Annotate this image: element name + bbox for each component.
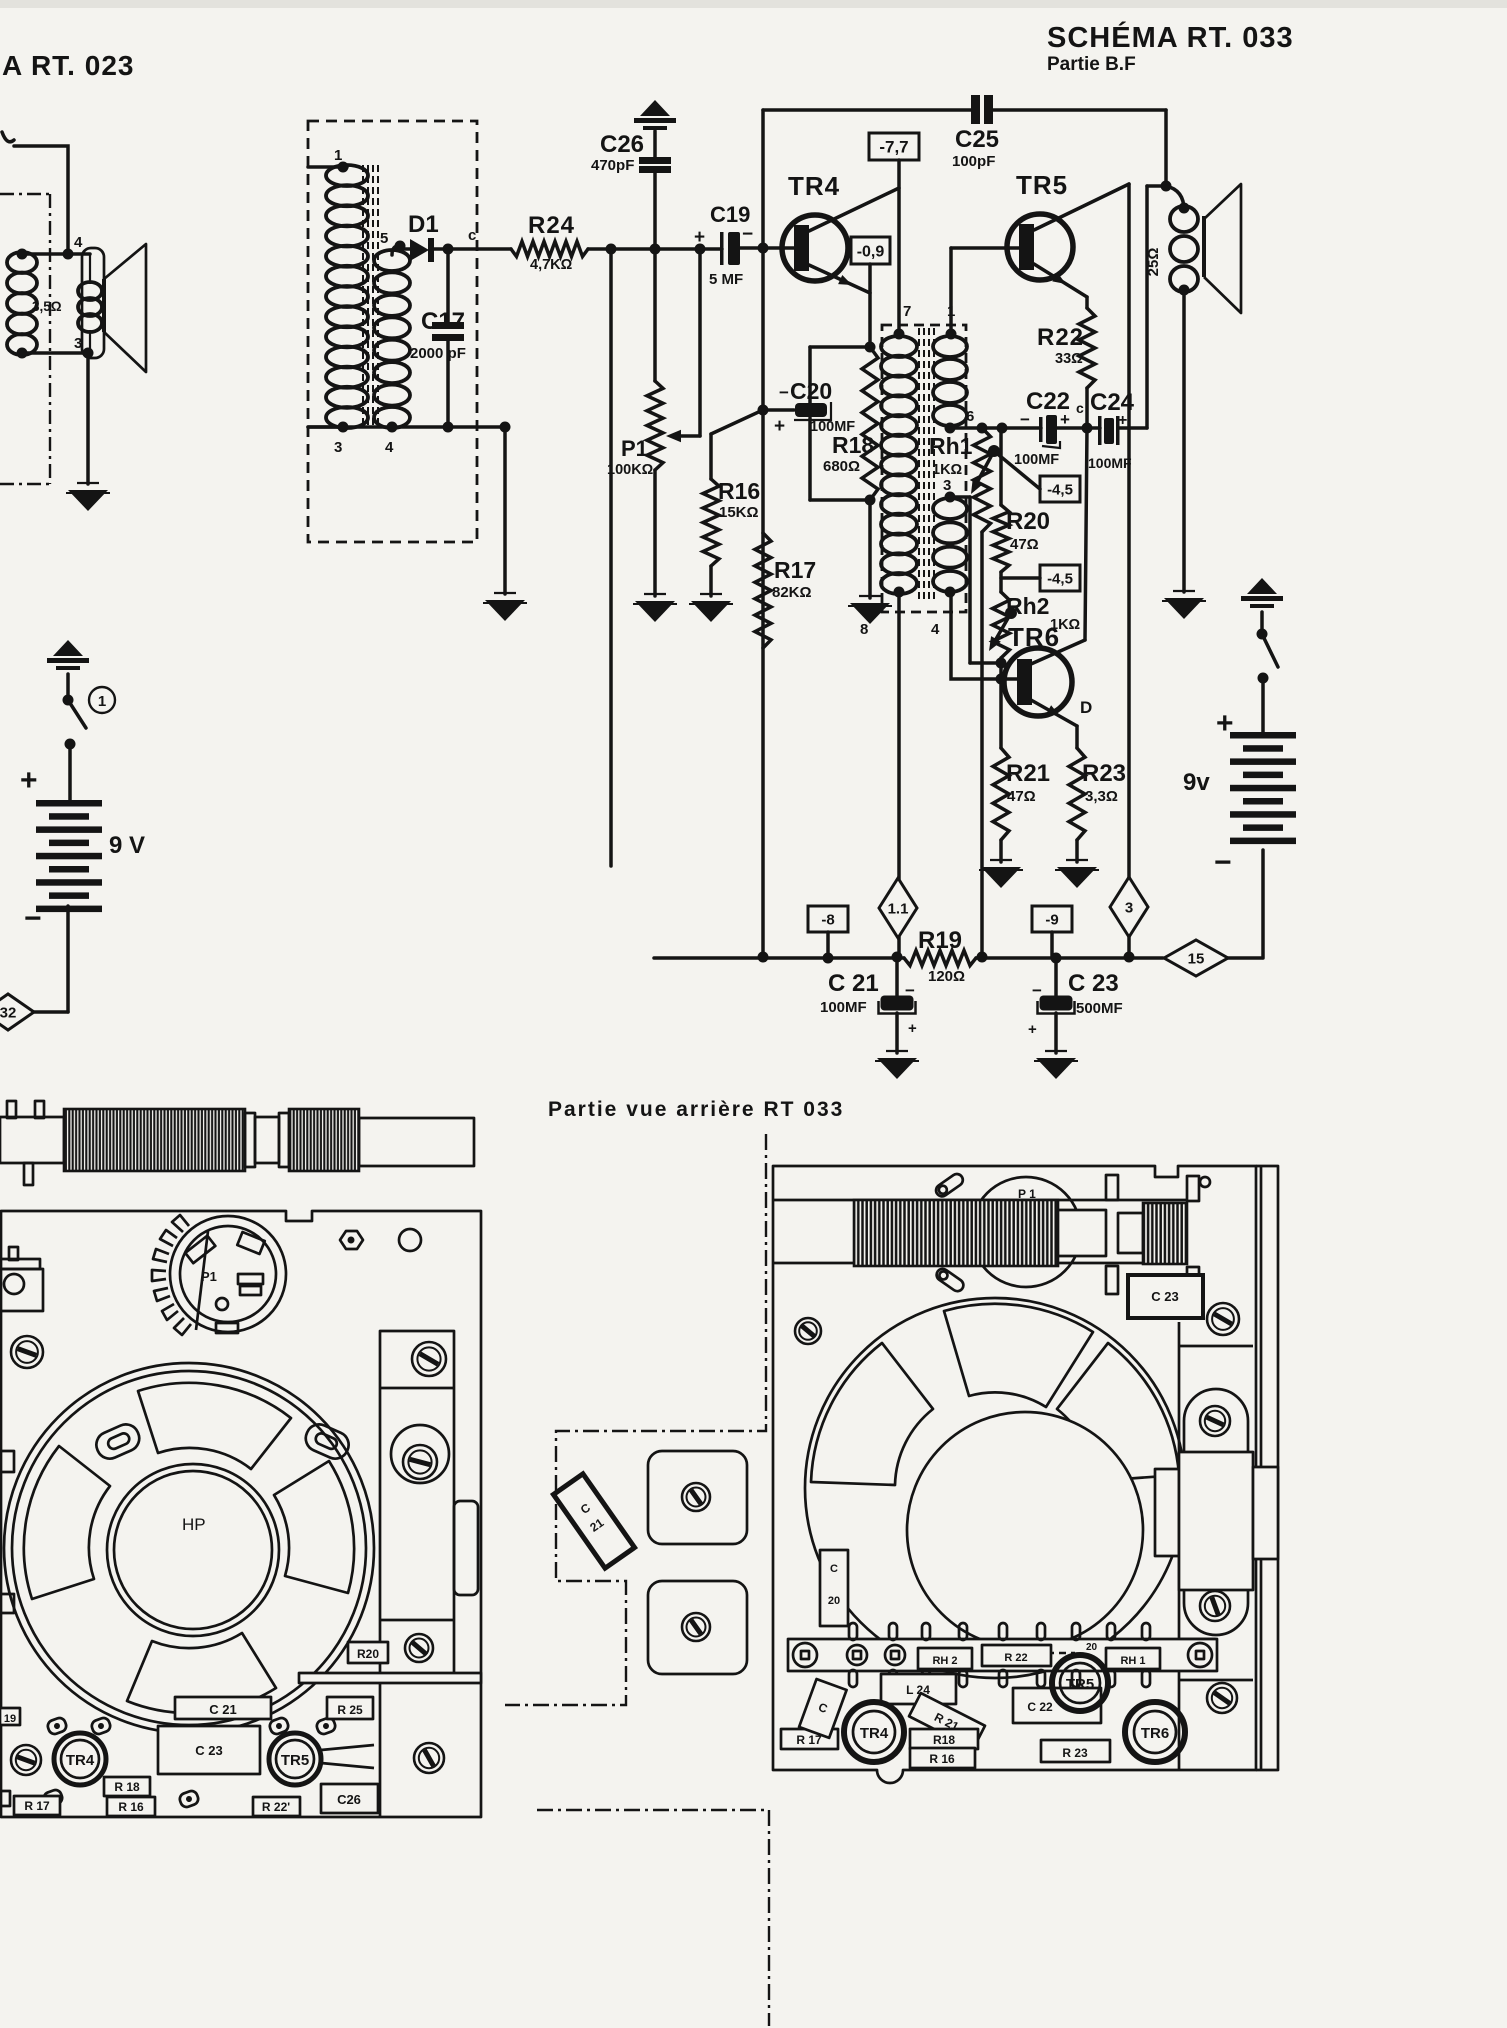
right PCB R22 box — [982, 1645, 1051, 1666]
svg-text:P1: P1 — [621, 436, 648, 461]
wire C19 to TR4 base — [740, 246, 795, 250]
left PCB R18 box — [104, 1777, 150, 1796]
right PCB side transformer — [1155, 1469, 1179, 1556]
transformer T023 bottom wire — [20, 351, 90, 355]
svg-text:TR5: TR5 — [1016, 170, 1068, 200]
T1 secondary coil — [374, 250, 410, 271]
wire C22 to C24 — [1057, 426, 1100, 430]
wire to node 4 — [14, 146, 68, 254]
speaker RT023 body — [82, 248, 104, 358]
resistor R22 — [1085, 297, 1089, 308]
svg-text:+: + — [1060, 410, 1070, 429]
pin 4 wire to TR6 base — [951, 592, 1017, 679]
svg-text:RH 1: RH 1 — [1120, 1655, 1145, 1667]
svg-text:32: 32 — [0, 1004, 16, 1021]
left PCB transformer — [380, 1331, 454, 1676]
svg-text:TR5: TR5 — [281, 1752, 309, 1769]
svg-text:3,3Ω: 3,3Ω — [1085, 788, 1118, 805]
svg-text:500MF: 500MF — [1076, 1000, 1123, 1017]
T2 secondary bottom coil — [933, 498, 967, 519]
right PCB RH2 box — [918, 1648, 972, 1669]
svg-text:9 V: 9 V — [109, 832, 145, 859]
resistor R16 — [711, 410, 763, 434]
ground T1 — [494, 592, 516, 594]
TR4 collector — [809, 188, 899, 231]
right PCB rounded squares — [648, 1451, 747, 1544]
svg-text:7: 7 — [903, 303, 911, 320]
left PCB hex nut — [340, 1231, 363, 1249]
svg-text:15KΩ: 15KΩ — [719, 504, 759, 521]
ground C21 — [886, 1050, 908, 1052]
right PCB C21 box — [553, 1474, 634, 1568]
right PCB RH1 box — [1106, 1648, 1160, 1669]
pin 3 — [945, 492, 956, 503]
svg-text:-4,5: -4,5 — [1047, 481, 1073, 498]
svg-text:R24: R24 — [528, 212, 575, 239]
right PCB strip lugs — [847, 1645, 867, 1665]
resistor R17 — [755, 533, 771, 648]
right PCB dash-dot boundary — [505, 1134, 766, 1705]
left PCB R16 box — [107, 1797, 155, 1816]
svg-text:TR6: TR6 — [1008, 622, 1060, 652]
capacitor C23 — [1054, 958, 1058, 996]
transistor TR4 — [782, 215, 848, 281]
capacitor C19 — [720, 232, 724, 265]
TR4 emitter — [809, 265, 870, 293]
svg-text:3: 3 — [1125, 899, 1133, 916]
diode D1 — [400, 247, 410, 251]
right PCB L24 box — [881, 1674, 956, 1704]
svg-text:3: 3 — [943, 477, 951, 494]
wire Rh2 to R21 — [999, 658, 1003, 748]
left PCB side bracket — [0, 1259, 40, 1269]
svg-text:TR4: TR4 — [788, 171, 840, 201]
right PCB side panel — [1178, 1322, 1181, 1770]
svg-text:9v: 9v — [1183, 769, 1210, 796]
right PCB speaker outer — [805, 1298, 1185, 1678]
svg-text:100KΩ: 100KΩ — [607, 462, 654, 478]
svg-text:D: D — [1080, 698, 1092, 717]
top feedback rail — [763, 108, 973, 112]
svg-text:3,5Ω: 3,5Ω — [32, 299, 62, 314]
long vertical from R24 node — [609, 249, 613, 866]
diamond 15 — [1164, 940, 1228, 976]
capacitor C26 — [653, 131, 657, 157]
svg-text:100MF: 100MF — [820, 999, 867, 1016]
transformer T023 top wire — [20, 252, 90, 256]
pin3 wire to wiper — [950, 495, 970, 499]
svg-text:-0,9: -0,9 — [857, 243, 885, 260]
wire emitter to C20 top — [810, 345, 870, 349]
svg-text:C 21: C 21 — [209, 1702, 236, 1717]
TR6 collector — [1031, 640, 1085, 664]
svg-text:C 21: C 21 — [828, 970, 879, 997]
svg-text:3: 3 — [334, 439, 342, 456]
Rh2 wiper — [1005, 607, 1017, 619]
svg-text:-7,7: -7,7 — [879, 138, 908, 157]
left PCB antenna coil 1 — [64, 1109, 245, 1171]
resistor R18 — [862, 347, 878, 500]
pin 4 — [945, 587, 956, 598]
svg-text:TR4: TR4 — [860, 1725, 889, 1742]
svg-text:TR5: TR5 — [1066, 1676, 1094, 1693]
svg-text:−: − — [1032, 981, 1042, 1000]
transistor TR5 — [1007, 214, 1073, 280]
svg-text:A RT. 023: A RT. 023 — [2, 50, 134, 81]
svg-text:20: 20 — [828, 1595, 840, 1607]
right PCB R23 box — [1041, 1740, 1110, 1762]
pin 8 — [894, 587, 905, 598]
svg-text:R23: R23 — [1082, 760, 1126, 787]
wire node3 to ground — [86, 353, 90, 484]
left PCB C21 box — [175, 1697, 271, 1719]
svg-text:TR4: TR4 — [66, 1752, 95, 1769]
svg-text:15: 15 — [1188, 950, 1205, 967]
svg-text:+: + — [20, 764, 38, 797]
voltage box -4,5 upper — [994, 451, 1040, 489]
resistor R24 — [511, 242, 588, 257]
svg-text:−: − — [1020, 410, 1030, 429]
Rh1 wiper — [988, 445, 1000, 457]
speaker wire to ground — [1182, 290, 1186, 592]
pin 1 — [946, 329, 957, 340]
svg-text:C: C — [830, 1563, 838, 1575]
svg-text:2000 pF: 2000 pF — [410, 345, 466, 362]
svg-text:33Ω: 33Ω — [1055, 351, 1083, 367]
switch contact 1 — [89, 687, 115, 713]
bottom rail — [654, 956, 904, 960]
svg-text:R17: R17 — [774, 557, 816, 583]
svg-text:6: 6 — [966, 408, 974, 425]
svg-text:P1: P1 — [201, 1269, 217, 1284]
left PCB TR4 — [54, 1733, 106, 1785]
right PCB rod channel — [773, 1199, 1186, 1202]
diamond 32 — [0, 994, 34, 1030]
svg-text:R 22: R 22 — [1004, 1652, 1027, 1664]
svg-text:47Ω: 47Ω — [1010, 536, 1039, 553]
svg-text:C 23: C 23 — [1068, 970, 1119, 997]
svg-text:Partie B.F: Partie B.F — [1047, 54, 1136, 75]
svg-text:4: 4 — [931, 621, 940, 638]
svg-text:5 MF: 5 MF — [709, 271, 743, 288]
svg-text:Rh1: Rh1 — [929, 433, 973, 459]
P1 wiper arrow — [698, 249, 702, 436]
svg-text:680Ω: 680Ω — [823, 458, 860, 475]
svg-text:R 22': R 22' — [262, 1800, 290, 1814]
svg-text:R 17: R 17 — [24, 1799, 50, 1813]
resistor R20 — [999, 428, 1003, 505]
svg-text:D1: D1 — [408, 211, 439, 238]
svg-text:100MF: 100MF — [1014, 452, 1059, 468]
right PCB R21 box — [909, 1693, 985, 1749]
left PCB P1 toothed detent — [152, 1215, 191, 1335]
svg-text:5: 5 — [380, 230, 388, 247]
svg-text:−: − — [779, 383, 789, 402]
left PCB left edge tabs — [0, 1451, 14, 1472]
svg-text:+: + — [694, 227, 705, 248]
left PCB hole — [399, 1229, 421, 1251]
capacitor C20 — [808, 347, 812, 403]
svg-text:C 23: C 23 — [1151, 1289, 1178, 1304]
svg-text:c: c — [468, 227, 476, 244]
switch right — [1260, 612, 1264, 634]
svg-text:1.1: 1.1 — [888, 900, 909, 917]
ground C23 — [1045, 1050, 1067, 1052]
T1 core — [363, 165, 378, 428]
left PCB speaker ears — [92, 1420, 143, 1463]
svg-text:C 22: C 22 — [1027, 1700, 1053, 1714]
svg-text:R21: R21 — [1006, 760, 1050, 787]
right PCB P1 terminals — [934, 1172, 965, 1199]
wire R24 to C19 — [588, 247, 722, 251]
left PCB speaker cone — [107, 1464, 279, 1636]
svg-text:SCHÉMA RT. 033: SCHÉMA RT. 033 — [1047, 20, 1294, 54]
chassis mass left — [53, 640, 83, 656]
voltage box -9 — [1032, 906, 1072, 932]
svg-text:R18: R18 — [832, 432, 874, 458]
transformer T023 primary coil 3.5ohm — [7, 252, 37, 273]
pin 3 wire — [308, 425, 347, 429]
left PCB TR5 — [269, 1733, 321, 1785]
svg-text:1: 1 — [334, 147, 342, 164]
T1 primary coil — [326, 165, 368, 186]
svg-text:4: 4 — [74, 234, 83, 251]
wire input squiggle RT023 — [2, 132, 14, 142]
C20/R18 bottom wire — [810, 498, 870, 502]
right PCB capsule — [1184, 1389, 1248, 1635]
right PCB antenna coil — [854, 1200, 1058, 1266]
wire C24 to speaker branch — [1119, 426, 1147, 430]
transformer T1 dashed box — [308, 121, 477, 542]
svg-text:R 18: R 18 — [114, 1780, 140, 1794]
speaker horn — [1202, 216, 1206, 277]
wire to ground — [503, 427, 507, 594]
svg-text:100MF: 100MF — [1088, 455, 1132, 471]
TR5 emitter — [1034, 264, 1087, 297]
speaker RT023 voice coil — [89, 254, 91, 284]
speaker RT023 horn — [104, 244, 146, 372]
svg-text:+: + — [908, 1020, 917, 1037]
svg-text:R20: R20 — [1006, 508, 1050, 535]
potentiometer P1 — [647, 381, 663, 470]
rheostat Rh2 — [999, 572, 1003, 592]
right PCB board right edge outer — [1256, 1166, 1278, 1770]
svg-text:C26: C26 — [337, 1792, 361, 1807]
left PCB R22 box — [253, 1797, 300, 1816]
svg-text:-8: -8 — [821, 911, 834, 928]
right PCB R18 box — [910, 1729, 978, 1749]
right PCB terminal strip — [788, 1639, 1217, 1671]
left PCB antenna rod — [0, 1117, 64, 1163]
left PCB transformer lower column — [379, 1683, 382, 1817]
ground R18 — [859, 595, 881, 597]
voltage box -7,7 — [869, 133, 919, 160]
ground RT023 — [77, 482, 99, 484]
left PCB speaker outer — [4, 1363, 374, 1733]
svg-text:120Ω: 120Ω — [928, 968, 965, 985]
svg-text:47Ω: 47Ω — [1007, 788, 1036, 805]
svg-text:1: 1 — [98, 693, 106, 710]
left PCB P1 potentiometer — [170, 1216, 286, 1332]
left rail vertical — [761, 110, 765, 958]
pin 7 — [894, 329, 905, 340]
left PCB C23 box — [158, 1726, 260, 1774]
left PCB C26 box — [321, 1784, 378, 1813]
chassis mass right — [1247, 578, 1277, 594]
svg-text:19: 19 — [4, 1713, 16, 1725]
rheostat Rh1 — [974, 428, 991, 532]
left PCB R17 box — [14, 1796, 60, 1815]
voltage box -0,9 — [851, 237, 890, 264]
left PCB screws bottom — [11, 1745, 41, 1775]
right PCB board outline — [773, 1166, 1256, 1783]
right PCB C20 box — [820, 1550, 848, 1626]
left PCB R25 box — [327, 1697, 373, 1719]
TR5 collector line to diamond 3 — [1127, 184, 1131, 878]
right PCB C box small — [799, 1679, 847, 1738]
right PCB P1 pot circle — [971, 1177, 1081, 1287]
right PCB R17 box — [781, 1729, 838, 1749]
svg-text:C 23: C 23 — [195, 1743, 222, 1758]
svg-text:-9: -9 — [1045, 911, 1058, 928]
left PCB transformer bar — [299, 1673, 481, 1683]
wire collector to pin7 — [897, 160, 901, 334]
pin 1 wire to TR5 base — [949, 248, 953, 334]
svg-text:TR6: TR6 — [1141, 1725, 1169, 1742]
pin 8 line to rail — [897, 592, 901, 879]
capacitor C21 — [895, 958, 899, 996]
svg-text:+: + — [1028, 1021, 1037, 1038]
svg-text:C26: C26 — [600, 131, 644, 158]
svg-text:−: − — [742, 224, 753, 245]
T1 bottom wire — [308, 425, 505, 429]
ground R21 — [990, 859, 1012, 861]
svg-text:R 16: R 16 — [929, 1752, 955, 1766]
svg-text:C17: C17 — [421, 308, 465, 335]
TR6 emitter — [1031, 700, 1077, 726]
resistor R19 — [904, 951, 976, 966]
T2 primary coil — [881, 336, 917, 357]
svg-text:Partie vue arrière RT 033: Partie vue arrière RT 033 — [548, 1098, 844, 1121]
capacitor C22 — [1039, 417, 1043, 442]
dash-dot boundary RT023 — [0, 194, 50, 484]
right PCB C23 box — [1128, 1275, 1203, 1318]
voltage box -4,5 lower — [1001, 576, 1040, 580]
svg-text:8: 8 — [860, 621, 868, 638]
svg-text:−: − — [1214, 846, 1232, 879]
svg-text:R 23: R 23 — [1062, 1746, 1088, 1760]
right PCB TR6 — [1125, 1702, 1185, 1762]
wire R18 to ground — [868, 500, 872, 598]
svg-text:-4,5: -4,5 — [1047, 570, 1073, 587]
resistor R23 — [1075, 726, 1079, 748]
speaker 25ohm voice coil — [1166, 186, 1184, 210]
right PCB eyelet bracket — [1181, 1639, 1215, 1666]
svg-text:82KΩ: 82KΩ — [772, 584, 812, 601]
T2 secondary top coil — [933, 336, 967, 357]
svg-text:−: − — [905, 981, 915, 1000]
svg-text:c: c — [1076, 400, 1084, 416]
right PCB speaker magnet — [907, 1412, 1143, 1648]
left PCB board outline — [1, 1211, 481, 1817]
right PCB TR4 — [844, 1702, 904, 1762]
ground R16 — [700, 593, 722, 595]
voltage box -8 — [808, 906, 848, 932]
svg-text:20: 20 — [1086, 1642, 1098, 1653]
svg-text:R18: R18 — [933, 1733, 955, 1747]
capacitor C17 — [446, 249, 450, 322]
transformer T2 dashed box — [882, 325, 966, 612]
TR5 collector — [1034, 184, 1129, 230]
capacitor C24 — [1098, 416, 1102, 445]
ground R23 — [1066, 859, 1088, 861]
svg-text:+: + — [774, 416, 785, 437]
diamond 3 — [1110, 877, 1148, 937]
left PCB 19 tag — [0, 1708, 20, 1725]
top rail right — [993, 108, 1166, 112]
left PCB eyelets — [46, 1716, 68, 1735]
svg-text:C20: C20 — [790, 378, 832, 404]
svg-text:R 25: R 25 — [337, 1703, 363, 1717]
pin 6 — [945, 423, 956, 434]
svg-text:4: 4 — [385, 439, 394, 456]
svg-text:R 16: R 16 — [118, 1800, 144, 1814]
svg-text:R16: R16 — [718, 478, 760, 504]
svg-text:RH 2: RH 2 — [932, 1655, 957, 1667]
left PCB antenna coil 2 — [289, 1109, 359, 1171]
svg-text:−: − — [24, 902, 42, 935]
svg-text:HP: HP — [182, 1515, 206, 1534]
right PCB screws — [795, 1318, 821, 1344]
diamond 1.1 — [879, 878, 917, 938]
svg-text:25Ω: 25Ω — [1145, 248, 1162, 277]
svg-text:100pF: 100pF — [952, 153, 995, 170]
capacitor C25 — [971, 95, 980, 124]
svg-text:R20: R20 — [357, 1647, 379, 1661]
svg-text:4,7KΩ: 4,7KΩ — [530, 257, 573, 273]
ground P1 — [644, 593, 666, 595]
right PCB speaker windows — [944, 1304, 1093, 1407]
pin 5 — [392, 246, 400, 255]
wire pin6 to C22 — [950, 426, 1041, 430]
svg-text:R22: R22 — [1037, 324, 1084, 351]
right PCB C22 box — [1013, 1688, 1101, 1723]
svg-text:R19: R19 — [918, 927, 962, 954]
pin 1 wire — [308, 165, 347, 169]
left PCB screw top-left — [11, 1336, 43, 1368]
transistor TR6 — [1004, 648, 1072, 716]
left PCB R20 tag — [348, 1642, 388, 1663]
right PCB TR5 — [1052, 1655, 1108, 1711]
ground speaker — [1173, 590, 1195, 592]
wire emitter node — [868, 264, 872, 347]
T2 core — [919, 328, 934, 600]
resistor R21 — [993, 748, 1009, 840]
chassis mass above C26 — [640, 100, 670, 116]
left PCB speaker windows — [138, 1383, 291, 1469]
svg-text:1KΩ: 1KΩ — [932, 462, 963, 478]
wire D1 to C17 node — [434, 247, 511, 251]
left PCB antenna rod right — [359, 1118, 474, 1166]
right PCB R16 box — [910, 1748, 975, 1768]
svg-text:C25: C25 — [955, 126, 999, 153]
svg-text:470pF: 470pF — [591, 157, 634, 174]
